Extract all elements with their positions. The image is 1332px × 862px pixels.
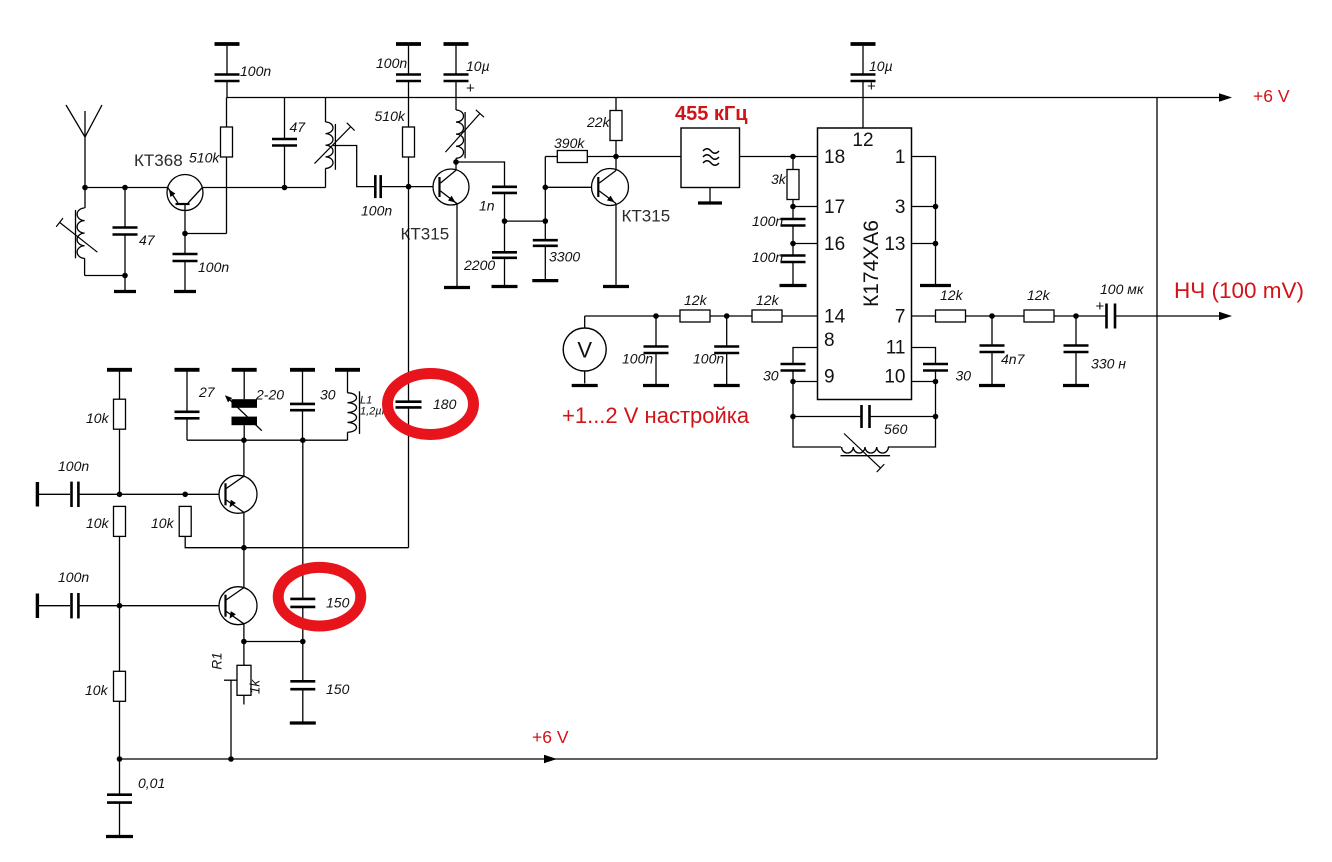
wire input 1 xyxy=(37,493,70,495)
wire +6V top rail xyxy=(227,97,1220,99)
svg-text:12: 12 xyxy=(852,130,873,151)
pin 9 wire xyxy=(793,381,818,383)
svg-text:3: 3 xyxy=(895,197,906,218)
pin 3 wire xyxy=(912,206,936,208)
node antenna-base xyxy=(82,185,88,191)
wire injection vertical xyxy=(408,187,410,402)
filter 455 kHz xyxy=(681,128,740,188)
capacitor 100n (pin14 b) xyxy=(714,316,739,384)
svg-text:30: 30 xyxy=(763,368,779,384)
node pin3 xyxy=(933,204,939,210)
node tank bottom xyxy=(122,273,128,279)
resistor R1 1k (trimmer) xyxy=(224,642,251,760)
resistor 3k xyxy=(787,157,799,207)
red circle (150) xyxy=(278,567,361,626)
svg-text:18: 18 xyxy=(824,147,845,168)
node KT368 base xyxy=(182,231,188,237)
resistor 390k xyxy=(545,151,616,163)
pin 8 wire xyxy=(793,348,818,365)
svg-text:10k: 10k xyxy=(85,682,109,698)
node 4n7 xyxy=(989,313,995,319)
svg-text:14: 14 xyxy=(824,307,846,328)
ground (KT315-2 emitter) xyxy=(603,285,629,288)
svg-text:КТ315: КТ315 xyxy=(401,225,450,244)
svg-text:100 мк: 100 мк xyxy=(1100,281,1145,297)
svg-text:НЧ (100 mV): НЧ (100 mV) xyxy=(1174,278,1304,303)
svg-text:390k: 390k xyxy=(554,135,585,151)
svg-text:180: 180 xyxy=(433,396,457,412)
capacitor 4n7 xyxy=(980,316,1005,384)
svg-text:4n7: 4n7 xyxy=(1001,351,1026,367)
ground (150) xyxy=(290,721,316,724)
wire 560 left xyxy=(793,416,862,418)
svg-text:2200: 2200 xyxy=(463,257,495,273)
svg-text:3300: 3300 xyxy=(549,249,580,265)
svg-text:10k: 10k xyxy=(151,515,175,531)
pin 11 wire xyxy=(912,348,936,365)
svg-text:+: + xyxy=(466,80,475,97)
wire +6V bottom rail xyxy=(120,758,1158,760)
wire filter to pin18 xyxy=(740,156,818,158)
antenna xyxy=(66,105,102,188)
svg-text:10µ: 10µ xyxy=(869,58,893,74)
svg-text:30: 30 xyxy=(956,368,972,384)
svg-text:10k: 10k xyxy=(86,515,110,531)
inductor L1 1,2µ xyxy=(348,370,360,440)
capacitor 100n (input 1) xyxy=(70,482,73,507)
resistor 22k xyxy=(610,98,622,171)
svg-text:510k: 510k xyxy=(375,108,406,124)
svg-text:330 н: 330 н xyxy=(1091,356,1126,372)
wire KT315-1 emitter xyxy=(456,204,458,286)
capacitor 30 (osc) xyxy=(290,370,315,440)
wire 560 right xyxy=(870,416,936,418)
node 22k-390k-collector xyxy=(613,154,619,160)
wire feedback vertical xyxy=(544,157,546,222)
wire KT368 collector xyxy=(202,187,325,189)
ground (voltmeter) xyxy=(572,384,598,387)
pin 7 wire xyxy=(912,315,936,317)
capacitor 3300 xyxy=(533,221,558,279)
red circle (180) xyxy=(388,374,474,435)
capacitor 10µ decoupling (x863) xyxy=(851,44,877,98)
wire filter ground stem xyxy=(709,188,711,202)
wire emitter row xyxy=(244,641,303,643)
resistor 12k (d) xyxy=(1024,310,1054,322)
wire injection lower xyxy=(408,407,410,547)
wire osc loop right xyxy=(888,417,936,448)
ground (330n) xyxy=(1063,384,1089,387)
svg-text:100n: 100n xyxy=(752,249,783,265)
resistor 10k (4) xyxy=(114,606,126,759)
voltmeter V xyxy=(563,316,606,384)
svg-text:0,01: 0,01 xyxy=(138,775,165,791)
svg-text:16: 16 xyxy=(824,234,845,255)
wire cap150-1 vertical xyxy=(302,440,304,599)
svg-text:12k: 12k xyxy=(940,287,964,303)
svg-text:100n: 100n xyxy=(58,569,89,585)
node 100n-a xyxy=(653,313,659,319)
wire osc2 collector xyxy=(243,548,245,588)
svg-text:100n: 100n xyxy=(693,351,724,367)
svg-text:12k: 12k xyxy=(1027,287,1051,303)
ground (KT368 base) xyxy=(174,290,196,293)
capacitor 10µ decoupling (x456) xyxy=(444,44,476,98)
node 150-2 top xyxy=(300,639,306,645)
svg-text:100n: 100n xyxy=(240,63,271,79)
capacitor 47 (collector tank) xyxy=(272,98,297,188)
resistor 12k (a) xyxy=(680,310,710,322)
terminal input 1 xyxy=(36,482,39,507)
svg-text:R1: R1 xyxy=(210,652,225,669)
svg-text:100n: 100n xyxy=(361,203,392,219)
inductor L-coll (variable) xyxy=(445,98,484,171)
svg-text:150: 150 xyxy=(326,681,350,697)
capacitor 0,01 xyxy=(107,759,132,835)
svg-text:47: 47 xyxy=(139,232,156,248)
transistor KT315 (second) xyxy=(592,169,629,206)
wire coupling to base xyxy=(381,186,433,188)
svg-text:11: 11 xyxy=(886,338,906,359)
svg-text:12k: 12k xyxy=(684,292,708,308)
transistor Q-osc1 xyxy=(219,475,257,513)
node pin16 xyxy=(790,241,796,247)
arrow output xyxy=(1219,312,1232,320)
node divider mid xyxy=(117,492,123,498)
capacitor 100 мк xyxy=(1105,304,1108,329)
node pin9 xyxy=(790,379,796,385)
svg-text:100n: 100n xyxy=(622,351,653,367)
svg-text:+: + xyxy=(1096,298,1105,315)
ground (antenna tank) xyxy=(114,290,136,293)
wire cap150-1 lower xyxy=(302,607,304,642)
op-amp U1 K174XA6 body xyxy=(818,128,912,400)
resistor 510k (KT368 bias) xyxy=(221,127,233,157)
resistor 510k (KT315-1 bias) xyxy=(403,98,415,187)
inductor L-osc (variable) xyxy=(841,434,891,473)
svg-text:10µ: 10µ xyxy=(466,58,490,74)
rail stub (27) xyxy=(175,368,200,372)
node pin17 xyxy=(790,204,796,210)
node osc2 emitter xyxy=(241,639,247,645)
wire antenna node xyxy=(85,187,168,189)
svg-text:455 кГц: 455 кГц xyxy=(675,103,748,125)
node divider mid 2 xyxy=(117,603,123,609)
wire tap xyxy=(333,146,375,187)
terminal input 2 xyxy=(36,594,39,619)
rail stub (2-20) xyxy=(232,368,257,372)
svg-text:КТ315: КТ315 xyxy=(622,207,671,226)
svg-text:1: 1 xyxy=(895,147,906,168)
svg-text:100n: 100n xyxy=(752,213,783,229)
wire KT315-2 emitter xyxy=(615,204,617,286)
transistor KT368 xyxy=(167,175,203,234)
svg-text:+: + xyxy=(867,78,876,95)
svg-text:1k: 1k xyxy=(248,679,263,695)
svg-text:12k: 12k xyxy=(756,292,780,308)
capacitor 100n (pin14 a) xyxy=(644,316,669,384)
node KT315-1 base xyxy=(406,184,412,190)
inductor L-tank2 (variable, tapped) xyxy=(315,98,355,188)
node KT315-2 base tee xyxy=(543,185,549,191)
svg-text:К174ХА6: К174ХА6 xyxy=(860,220,883,307)
wire base KT315-2 xyxy=(545,186,592,188)
ground (pins 1-3-13) xyxy=(920,284,951,287)
node collector tap xyxy=(453,159,459,165)
svg-text:9: 9 xyxy=(824,367,835,388)
svg-text:27: 27 xyxy=(198,384,216,400)
svg-text:10: 10 xyxy=(884,367,905,388)
wire output xyxy=(1115,315,1220,317)
svg-text:100n: 100n xyxy=(58,458,89,474)
capacitor 1n xyxy=(492,186,517,189)
pin 13 wire xyxy=(912,243,936,245)
ground (KT315-1 emitter) xyxy=(444,286,470,289)
wire tank bottom xyxy=(187,439,348,441)
svg-text:+6 V: +6 V xyxy=(1253,86,1290,106)
wire osc loop left xyxy=(793,417,841,448)
capacitor 100n (17-16) xyxy=(781,207,806,244)
wire osc1 collector xyxy=(243,440,245,476)
node collector-tank xyxy=(282,185,288,191)
wire osc2 emitter xyxy=(243,624,245,642)
resistor 12k (b) xyxy=(752,310,782,322)
arrow +6V bottom xyxy=(544,755,557,763)
svg-text:100n: 100n xyxy=(376,55,407,71)
capacitor 30 (pins 8-9) xyxy=(781,363,806,366)
capacitor 150 (circled) xyxy=(290,598,315,601)
capacitor 330 н xyxy=(1064,316,1089,384)
capacitor 100n decoupling (x227) xyxy=(215,44,240,98)
node 10k-3 top xyxy=(182,492,188,498)
node tank-collector xyxy=(241,437,247,443)
wire coil to cap bottom xyxy=(85,275,125,277)
svg-text:30: 30 xyxy=(320,387,336,403)
wire feedback row xyxy=(244,547,409,549)
node feedback xyxy=(241,545,247,551)
capacitor 2-20 (variable) xyxy=(225,370,262,440)
resistor 10k (1) xyxy=(114,370,126,495)
wire osc1 emitter xyxy=(243,512,245,547)
node pin10 xyxy=(933,379,939,385)
node 560 right xyxy=(933,414,939,420)
wire input 2 xyxy=(37,605,70,607)
wire 1n bottom xyxy=(504,193,506,221)
wire input1 to base xyxy=(78,493,219,495)
node tank-150 xyxy=(300,437,306,443)
node pin18 xyxy=(790,154,796,160)
capacitor 180 (injection) xyxy=(396,400,422,403)
ground (pin16 cap) xyxy=(780,284,807,287)
inductor L-ant (variable) xyxy=(56,188,97,276)
rail stub (L1) xyxy=(335,368,360,372)
svg-text:560: 560 xyxy=(884,421,908,437)
wire input2 to base xyxy=(78,605,219,607)
svg-text:+1...2 V настройка: +1...2 V настройка xyxy=(562,403,750,428)
rail stub (10k chain) xyxy=(107,368,132,372)
node pin13 xyxy=(933,241,939,247)
arrow +6V top xyxy=(1219,93,1232,101)
resistor 10k (3) xyxy=(179,506,244,547)
svg-text:8: 8 xyxy=(824,330,835,351)
pin 1 wire xyxy=(912,157,936,285)
transistor KT315 (first) xyxy=(433,169,469,205)
pin 16 wire xyxy=(793,243,818,245)
wire tap to 1n xyxy=(456,162,505,187)
capacitor 150 (emitter) xyxy=(290,642,315,722)
pin 10 wire xyxy=(912,381,936,383)
pin 14 wire xyxy=(585,315,818,317)
pin 12 wire xyxy=(862,98,864,129)
node 330n xyxy=(1073,313,1079,319)
capacitor 560 xyxy=(860,405,863,428)
svg-text:10k: 10k xyxy=(86,410,110,426)
svg-text:7: 7 xyxy=(895,307,906,328)
node bottom rail left xyxy=(117,756,123,762)
node 1n-2200 xyxy=(502,218,508,224)
ground (100n a) xyxy=(643,384,669,387)
node 100n-b xyxy=(724,313,730,319)
ground (4n7) xyxy=(979,384,1005,387)
svg-text:47: 47 xyxy=(290,119,307,135)
wire cap47 bottom xyxy=(124,235,126,276)
capacitor 2200 xyxy=(492,221,517,285)
wire +6V right-side vertical xyxy=(1156,98,1158,760)
capacitor 27 xyxy=(175,370,200,440)
svg-text:510k: 510k xyxy=(189,150,220,166)
svg-text:3k: 3k xyxy=(771,171,787,187)
capacitor 100n decoupling (x408) xyxy=(396,44,421,98)
wire 12kc-12kd xyxy=(966,315,1025,317)
wire pin10 up xyxy=(935,382,937,417)
svg-text:13: 13 xyxy=(884,234,905,255)
wire node to node xyxy=(505,220,546,222)
capacitor 100n (input 2) xyxy=(70,593,73,618)
svg-text:2-20: 2-20 xyxy=(255,387,284,403)
ground (2200) xyxy=(492,285,518,288)
svg-text:1n: 1n xyxy=(479,198,495,214)
wire cap47 top xyxy=(124,188,126,228)
node 560 left xyxy=(790,414,796,420)
capacitor 30 (pins 11-10) xyxy=(923,363,948,366)
capacitor 47 (antenna tank) xyxy=(113,226,138,229)
pin 17 wire xyxy=(793,206,818,208)
svg-text:КТ368: КТ368 xyxy=(134,151,183,170)
ground (filter) xyxy=(698,201,722,204)
rail stub (30) xyxy=(290,368,315,372)
svg-text:150: 150 xyxy=(326,595,350,611)
svg-text:V: V xyxy=(577,338,592,363)
wire 12kd-cap xyxy=(1054,315,1107,317)
svg-text:22k: 22k xyxy=(586,114,611,130)
wire pin9 down xyxy=(792,382,794,417)
wire collector to filter xyxy=(616,156,681,158)
ground (0,01) xyxy=(106,835,133,838)
capacitor 100n (KT368 base bypass) xyxy=(173,234,198,291)
wire cap30 to pin9 xyxy=(792,371,794,382)
capacitor 100n (coupling) xyxy=(374,175,377,198)
resistor 10k (2) xyxy=(114,506,126,605)
capacitor 100n (16-gnd) xyxy=(781,244,806,285)
svg-text:+6 V: +6 V xyxy=(532,727,569,747)
node 3300 xyxy=(543,218,549,224)
ground (3300) xyxy=(532,279,558,282)
node R1 wiper rail xyxy=(228,756,234,762)
transistor Q-osc2 xyxy=(219,587,257,625)
ground (100n b) xyxy=(714,384,740,387)
svg-text:17: 17 xyxy=(824,197,845,218)
resistor 12k (c) xyxy=(936,310,966,322)
wire base bias xyxy=(185,233,227,235)
svg-text:100n: 100n xyxy=(198,259,229,275)
wire cap30b to pin10 xyxy=(935,371,937,382)
